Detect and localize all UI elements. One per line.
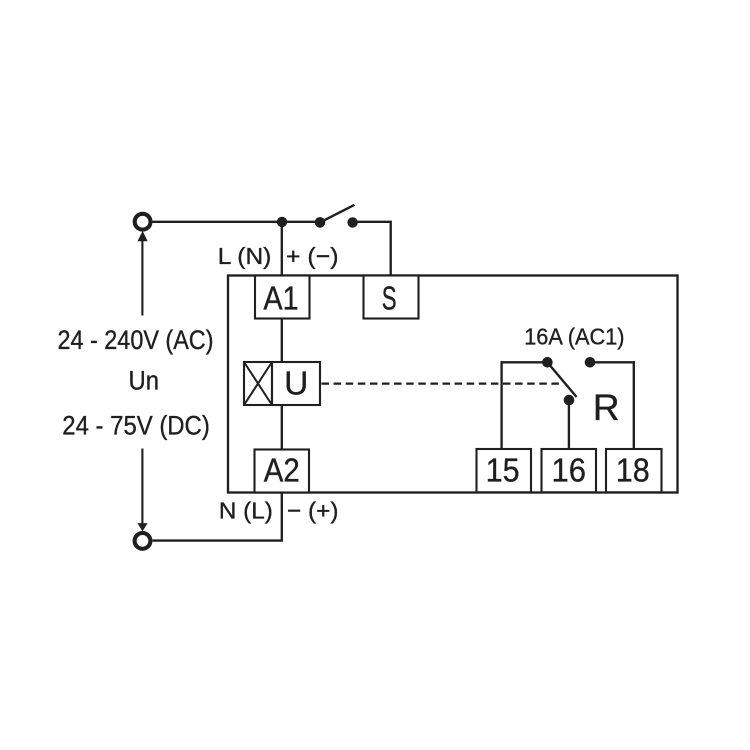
- svg-text:R: R: [593, 387, 620, 428]
- svg-text:+ (−): + (−): [286, 243, 339, 269]
- svg-text:Un: Un: [129, 365, 160, 395]
- svg-text:A1: A1: [263, 280, 298, 317]
- svg-text:24 - 240V (AC): 24 - 240V (AC): [58, 325, 214, 355]
- svg-text:16: 16: [552, 453, 587, 490]
- svg-text:24 - 75V (DC): 24 - 75V (DC): [62, 411, 210, 441]
- svg-text:18: 18: [616, 453, 650, 490]
- svg-text:15: 15: [486, 453, 520, 490]
- svg-text:U: U: [284, 365, 308, 402]
- svg-text:− (+): − (+): [287, 497, 339, 523]
- svg-text:A2: A2: [264, 453, 300, 490]
- svg-text:N (L): N (L): [219, 497, 273, 523]
- svg-text:L (N): L (N): [218, 243, 272, 269]
- svg-text:16A (AC1): 16A (AC1): [524, 323, 624, 349]
- svg-text:S: S: [382, 280, 397, 317]
